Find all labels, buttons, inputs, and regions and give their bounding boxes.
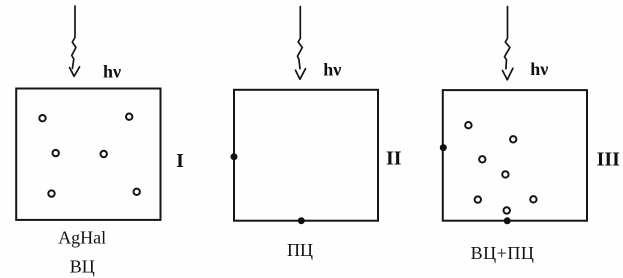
surface centre dot on bottom edge of box II [298,217,305,224]
inner centre circle III-3 [479,156,485,162]
svg-text:AgHal: AgHal [58,228,106,248]
inner centre circle III-6 [530,196,536,202]
inner centre circle III-1 [465,122,471,128]
photon arrow 1 wavy shaft [72,6,76,69]
inner centre circle I-1 [39,115,45,121]
inner centre circle I-2 [126,114,132,120]
photon arrow 2 wavy shaft [298,7,303,69]
svg-text:II: II [386,147,402,169]
crystal box I [16,89,160,220]
photon arrow 1 open head [70,67,80,77]
surface centre dot on left edge of box III [440,144,447,151]
inner centre circle I-4 [101,151,107,157]
surface centre dot on left edge of box II [231,153,238,160]
surface centre dot on bottom edge of box III [504,217,511,224]
svg-text:III: III [597,148,621,170]
svg-text:hν: hν [323,59,341,79]
crystal box III [443,90,587,221]
photon arrow 3 wavy shaft [505,7,510,69]
svg-text:ПЦ: ПЦ [287,240,313,260]
inner centre circle I-5 [48,190,54,196]
photon arrow 3 open head [503,68,513,80]
svg-text:ВЦ+ПЦ: ВЦ+ПЦ [471,243,535,263]
inner centre circle I-3 [53,150,59,156]
inner centre circle I-6 [134,189,140,195]
svg-text:hν: hν [103,62,121,82]
crystal box II [234,90,378,221]
inner centre circle III-2 [510,136,516,142]
inner centre circle III-5 [475,196,481,202]
svg-text:hν: hν [530,59,548,79]
inner centre circle III-4 [502,171,508,177]
photon arrow 2 open head [296,69,306,80]
svg-text:ВЦ: ВЦ [70,257,95,277]
svg-text:I: I [176,150,184,172]
inner centre circle III-7 [504,207,510,213]
